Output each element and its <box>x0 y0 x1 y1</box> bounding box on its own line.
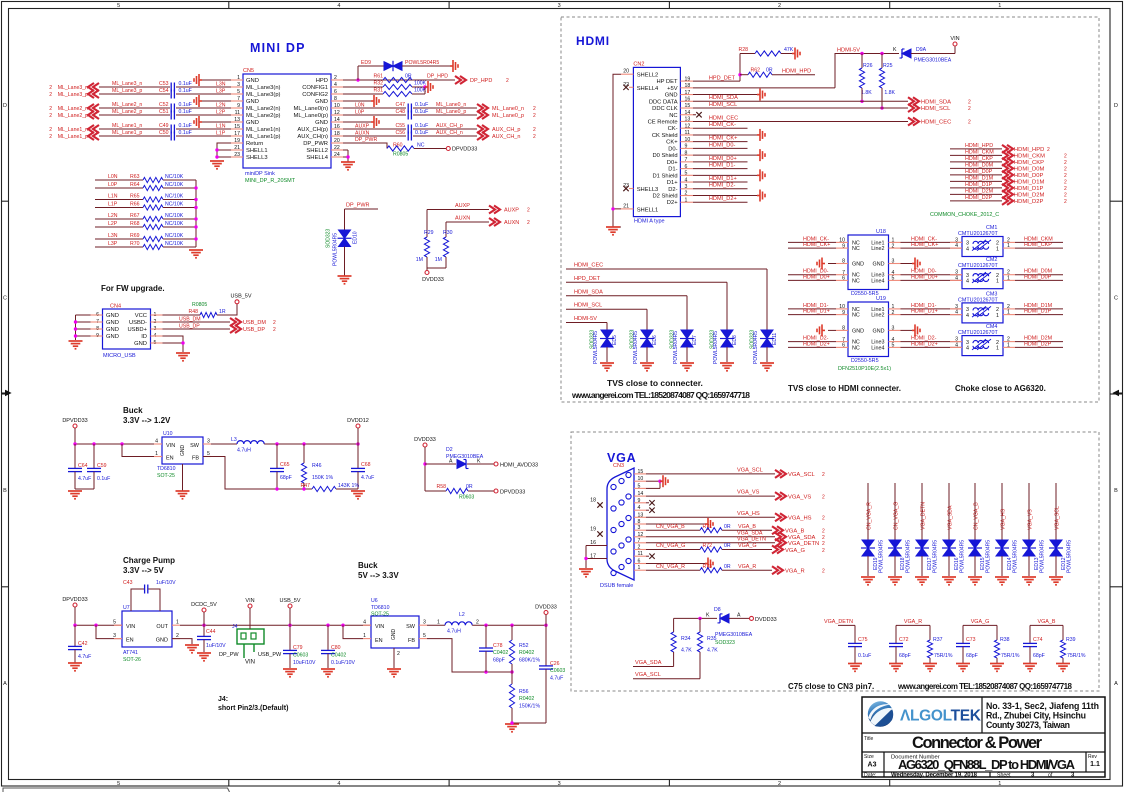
junction <box>288 624 291 627</box>
svg-text:0.1uF: 0.1uF <box>415 123 428 129</box>
svg-text:3.3V --> 1.2V: 3.3V --> 1.2V <box>123 416 171 425</box>
port VGA_SDA <box>775 533 786 541</box>
svg-text:ML_Lane2_n: ML_Lane2_n <box>58 106 88 112</box>
svg-text:5: 5 <box>117 781 120 787</box>
svg-text:VGA_DETN: VGA_DETN <box>737 537 766 543</box>
resistor R37 <box>929 625 931 640</box>
svg-text:R66: R66 <box>130 202 140 208</box>
svg-text:CN_VGA_B: CN_VGA_B <box>656 524 685 530</box>
svg-text:2: 2 <box>506 78 509 84</box>
svg-text:DDC CLK: DDC CLK <box>652 106 678 112</box>
wire <box>163 321 231 323</box>
svg-text:R32: R32 <box>373 81 383 87</box>
svg-text:VGA_VS: VGA_VS <box>1028 509 1034 530</box>
svg-text:A: A <box>1114 681 1118 687</box>
svg-text:DPVDD33: DPVDD33 <box>500 490 525 496</box>
wire <box>901 247 963 249</box>
svg-text:VIN: VIN <box>166 443 175 449</box>
wire <box>646 473 775 475</box>
ground <box>321 669 335 677</box>
svg-text:2: 2 <box>968 106 971 112</box>
power USB_5V <box>235 300 239 304</box>
ground <box>956 664 970 672</box>
svg-text:C48: C48 <box>395 109 405 115</box>
svg-text:R39: R39 <box>1066 637 1076 643</box>
svg-text:L1P: L1P <box>108 202 118 208</box>
svg-text:Buck: Buck <box>358 561 378 570</box>
svg-text:L3P: L3P <box>216 89 226 95</box>
svg-text:D2550-5R5: D2550-5R5 <box>851 358 879 364</box>
wire <box>1015 274 1063 276</box>
svg-text:HDMI_D1P: HDMI_D1P <box>1014 186 1043 192</box>
svg-text:68pF: 68pF <box>280 475 292 481</box>
svg-text:0.1uF: 0.1uF <box>858 653 871 659</box>
svg-text:VGA_R: VGA_R <box>904 619 922 625</box>
port HDMI_SCL <box>908 104 919 112</box>
regulator U6 <box>371 616 419 648</box>
svg-text:ML_Lane0_p: ML_Lane0_p <box>492 113 524 119</box>
junction <box>484 624 487 627</box>
junction <box>275 442 278 445</box>
junction <box>341 624 344 627</box>
svg-text:VGA_SCL: VGA_SCL <box>788 472 816 478</box>
ground <box>68 491 82 499</box>
svg-text:GND: GND <box>134 341 147 347</box>
svg-text:SHELL4: SHELL4 <box>306 155 328 161</box>
TVS diode ED14 <box>995 540 1009 556</box>
ground <box>912 258 920 270</box>
wire <box>1015 279 1063 281</box>
capacitor C74 <box>1029 625 1031 643</box>
svg-text:HDMI_D2M: HDMI_D2M <box>965 189 994 195</box>
wire <box>950 154 1002 156</box>
wire <box>176 107 231 109</box>
svg-text:Choke close to AG6320.: Choke close to AG6320. <box>955 384 1046 393</box>
svg-text:4: 4 <box>363 620 366 626</box>
ground <box>1022 577 1036 585</box>
ground <box>194 95 202 107</box>
svg-text:DP_PWR: DP_PWR <box>346 203 370 209</box>
svg-text:GND: GND <box>106 313 119 319</box>
svg-text:PMEG3010BEA: PMEG3010BEA <box>715 632 753 638</box>
wire <box>249 608 251 629</box>
wire <box>699 618 701 632</box>
svg-text:AUX_CH_n: AUX_CH_n <box>436 130 463 136</box>
svg-text:CONFIG2: CONFIG2 <box>302 92 328 98</box>
svg-text:3: 3 <box>558 781 561 787</box>
svg-text:ML_Lane2_p: ML_Lane2_p <box>58 113 88 119</box>
wire <box>357 444 359 468</box>
wire <box>693 94 757 96</box>
svg-text:POWL5R04R5: POWL5R04R5 <box>753 331 759 364</box>
wire <box>176 128 231 130</box>
svg-text:0.1uF: 0.1uF <box>415 109 428 115</box>
svg-text:D1+: D1+ <box>667 180 678 186</box>
svg-text:1: 1 <box>998 781 1001 787</box>
wire <box>393 648 395 668</box>
TVS diode ED18 <box>888 540 902 556</box>
svg-text:HDMI_HPD: HDMI_HPD <box>1014 147 1044 153</box>
wire <box>180 624 236 626</box>
wire <box>693 127 748 129</box>
wire <box>950 193 1002 195</box>
port AUX_CH_p <box>477 125 488 133</box>
svg-text:USB_PW: USB_PW <box>258 652 282 658</box>
wire <box>345 208 379 210</box>
junction <box>544 624 547 627</box>
wire <box>974 483 976 540</box>
wire <box>425 463 456 465</box>
svg-text:2: 2 <box>778 781 781 787</box>
svg-text:HP DET: HP DET <box>656 79 678 85</box>
wire <box>203 612 205 625</box>
svg-text:2: 2 <box>968 120 971 126</box>
svg-text:GND: GND <box>391 629 397 641</box>
svg-text:R62: R62 <box>750 68 760 74</box>
svg-text:C51: C51 <box>159 109 169 115</box>
svg-text:R0805: R0805 <box>393 152 408 158</box>
svg-text:HDMI_CKP: HDMI_CKP <box>1014 160 1044 166</box>
svg-text:GND: GND <box>106 334 119 340</box>
svg-text:2: 2 <box>273 327 276 333</box>
port VGA_R <box>772 566 783 574</box>
svg-text:2: 2 <box>822 541 825 547</box>
wire <box>646 523 705 525</box>
wire <box>788 274 836 276</box>
svg-text:HDMI_D1+: HDMI_D1+ <box>911 309 938 315</box>
wire <box>686 347 688 362</box>
svg-text:C0603: C0603 <box>293 653 308 659</box>
svg-text:R58: R58 <box>436 484 446 490</box>
wire <box>901 274 963 276</box>
svg-text:VGA_G: VGA_G <box>738 543 757 549</box>
wire <box>343 100 371 102</box>
svg-text:2: 2 <box>1047 147 1050 153</box>
wire <box>693 80 740 82</box>
svg-text:R46: R46 <box>312 463 322 469</box>
wire <box>176 135 231 137</box>
svg-text:GND: GND <box>106 320 119 326</box>
wire <box>99 128 170 130</box>
svg-text:C56: C56 <box>395 130 405 136</box>
wire <box>76 328 91 330</box>
wire <box>726 347 728 362</box>
port ML_Lane0_n <box>477 104 488 112</box>
port DP_HPD <box>455 76 466 84</box>
svg-text:75R/1%: 75R/1% <box>934 653 953 659</box>
wire <box>357 428 359 444</box>
svg-text:SOT-26: SOT-26 <box>123 657 141 663</box>
wire <box>896 624 930 626</box>
wire <box>950 148 1002 150</box>
svg-text:75R/1%: 75R/1% <box>1067 653 1086 659</box>
svg-text:D9A: D9A <box>916 47 927 53</box>
svg-text:C65: C65 <box>280 462 290 468</box>
wire <box>948 556 950 576</box>
ground <box>705 558 713 570</box>
ground <box>189 250 203 258</box>
wire <box>327 625 329 650</box>
ground <box>194 116 202 128</box>
svg-text:HDMI A type: HDMI A type <box>634 219 665 225</box>
svg-text:FB: FB <box>408 638 415 644</box>
wire <box>766 347 768 362</box>
svg-text:HDMI_D1+: HDMI_D1+ <box>803 309 830 315</box>
svg-text:VGA_B: VGA_B <box>785 529 804 535</box>
svg-text:C0402: C0402 <box>493 650 508 656</box>
ground <box>861 577 875 585</box>
junction <box>698 617 701 620</box>
wire <box>445 222 447 237</box>
svg-text:2: 2 <box>49 85 52 91</box>
next sheet edge <box>3 788 230 792</box>
TVS diode ED17 <box>915 540 929 556</box>
wire <box>413 135 477 137</box>
junction <box>880 52 883 55</box>
junction <box>94 624 97 627</box>
svg-text:L3N: L3N <box>216 82 226 88</box>
svg-text:HPD_DET: HPD_DET <box>709 75 736 81</box>
wire <box>950 167 1002 169</box>
svg-text:L1N: L1N <box>216 124 226 130</box>
svg-text:R70: R70 <box>130 241 140 247</box>
svg-text:B: B <box>3 488 7 494</box>
svg-text:ML_Lane2_n: ML_Lane2_n <box>112 102 142 108</box>
port VGA_VS <box>775 492 786 500</box>
wire <box>646 480 660 482</box>
power DPVDD33 <box>446 147 450 151</box>
svg-text:NC: NC <box>852 313 860 319</box>
wire <box>646 563 705 565</box>
svg-text:D0-: D0- <box>668 146 677 152</box>
wire <box>740 74 748 76</box>
svg-text:L3P: L3P <box>108 241 118 247</box>
junction <box>880 106 883 109</box>
svg-text:HDMI_HPD: HDMI_HPD <box>782 68 811 74</box>
svg-text:D1 Shield: D1 Shield <box>652 173 677 179</box>
port HDMI_CKM <box>1002 151 1013 159</box>
svg-text:1: 1 <box>996 279 999 285</box>
svg-text:143K 1%: 143K 1% <box>338 483 359 489</box>
wire <box>854 625 856 643</box>
wire <box>176 93 231 95</box>
port HDMI_D0P <box>1002 171 1013 179</box>
svg-text:VGA_SCL: VGA_SCL <box>737 467 763 473</box>
svg-text:2: 2 <box>1064 160 1067 166</box>
wire <box>163 336 184 352</box>
svg-text:B: B <box>1114 488 1118 494</box>
power VIN <box>954 46 956 54</box>
svg-text:ML_Lane3(p): ML_Lane3(p) <box>246 92 281 98</box>
svg-text:0.1uF: 0.1uF <box>179 88 192 94</box>
wire <box>163 226 196 228</box>
svg-text:Line4: Line4 <box>871 345 884 351</box>
wire <box>545 615 547 626</box>
svg-text:Rev: Rev <box>1088 754 1097 760</box>
svg-text:HDMI_SCL: HDMI_SCL <box>921 106 951 112</box>
svg-text:ΛLGOLTEK: ΛLGOLTEK <box>900 708 982 725</box>
junction <box>74 327 77 330</box>
svg-text:ED6: ED6 <box>652 335 658 345</box>
svg-text:NC/10K: NC/10K <box>165 202 184 208</box>
svg-text:2: 2 <box>49 92 52 98</box>
svg-text:R69: R69 <box>130 233 140 239</box>
svg-text:D2 Shield: D2 Shield <box>652 194 677 200</box>
svg-text:U7: U7 <box>123 605 130 611</box>
svg-text:HDMI_SCL: HDMI_SCL <box>574 303 602 309</box>
svg-text:AUX_CH(p): AUX_CH(p) <box>297 127 328 133</box>
svg-text:POWL5R04R5: POWL5R04R5 <box>1067 540 1073 573</box>
svg-text:POWL5R04R5: POWL5R04R5 <box>933 540 939 573</box>
svg-text:VGA_HS: VGA_HS <box>1001 508 1007 530</box>
svg-text:short Pin2/3.(Default): short Pin2/3.(Default) <box>218 705 288 712</box>
svg-text:GND: GND <box>156 638 168 644</box>
wire <box>93 444 95 468</box>
wire <box>911 53 955 55</box>
wire <box>163 187 196 189</box>
svg-text:HDMI_D1-: HDMI_D1- <box>709 162 736 168</box>
svg-text:4.7K: 4.7K <box>681 648 692 654</box>
svg-text:USB_5V: USB_5V <box>279 598 300 604</box>
svg-text:NC: NC <box>852 246 860 252</box>
svg-text:HDMI_D2+: HDMI_D2+ <box>803 341 830 347</box>
svg-text:C0603: C0603 <box>550 668 565 674</box>
TVS diode ED5 <box>600 330 614 347</box>
wire <box>828 329 836 331</box>
capacitor C73 <box>962 625 964 643</box>
wire <box>948 483 950 540</box>
svg-text:2: 2 <box>1064 199 1067 205</box>
wire <box>467 463 494 465</box>
svg-text:R48: R48 <box>188 309 198 315</box>
svg-text:ML_Lane2(n): ML_Lane2(n) <box>246 106 281 112</box>
ground <box>387 669 401 677</box>
wire <box>343 135 406 137</box>
wire <box>1015 346 1063 348</box>
junction <box>181 341 184 344</box>
svg-text:2: 2 <box>822 529 825 535</box>
power HDMI_AVDD33 <box>494 462 498 466</box>
svg-text:AUX_CH_p: AUX_CH_p <box>436 123 463 129</box>
svg-text:ID: ID <box>141 334 147 340</box>
svg-text:D8: D8 <box>714 607 721 613</box>
junction <box>346 155 349 158</box>
svg-text:GND: GND <box>873 262 885 268</box>
wire <box>881 88 883 108</box>
wire <box>327 654 329 668</box>
ground <box>505 724 519 732</box>
port VGA_DETN <box>775 539 786 547</box>
svg-text:1: 1 <box>996 313 999 319</box>
junction <box>215 155 218 158</box>
wire <box>336 488 358 490</box>
charge pump U7 <box>122 611 172 647</box>
ground <box>425 81 433 93</box>
ground <box>197 653 211 661</box>
wire <box>726 282 728 330</box>
svg-text:www.angerei.com TEL:1852087408: www.angerei.com TEL:18520874087 QQ:16597… <box>897 682 1073 691</box>
svg-text:TD6810: TD6810 <box>157 466 176 472</box>
connector CN4 <box>103 309 151 349</box>
svg-text:PMEG3010BEA: PMEG3010BEA <box>914 58 952 64</box>
wire <box>74 650 76 663</box>
title block <box>862 697 1105 777</box>
svg-text:R64: R64 <box>130 182 140 188</box>
svg-text:2: 2 <box>822 569 825 575</box>
ground <box>338 276 352 284</box>
svg-text:VGA_HS: VGA_HS <box>788 516 812 522</box>
wire <box>739 54 741 82</box>
svg-text:4: 4 <box>966 279 969 285</box>
svg-text:1: 1 <box>996 346 999 352</box>
junction <box>194 198 197 201</box>
svg-text:47K: 47K <box>784 47 794 53</box>
wire <box>894 483 896 540</box>
wire <box>76 314 91 316</box>
svg-text:ED10: ED10 <box>353 231 359 244</box>
svg-text:AUXN: AUXN <box>504 220 519 226</box>
svg-text:ML_Lane0_p: ML_Lane0_p <box>436 109 466 115</box>
svg-text:68pF: 68pF <box>966 653 978 659</box>
svg-text:ML_Lane0_n: ML_Lane0_n <box>492 106 524 112</box>
wire <box>566 322 607 324</box>
HDMI section box <box>561 17 1099 402</box>
wire <box>729 617 749 619</box>
svg-text:2: 2 <box>533 106 536 112</box>
svg-text:AT741: AT741 <box>123 650 138 656</box>
wire <box>303 444 305 463</box>
svg-text:R63: R63 <box>130 174 140 180</box>
no-connect <box>623 85 628 90</box>
svg-text:CONFIG1: CONFIG1 <box>302 85 328 91</box>
junction <box>202 624 205 627</box>
wire <box>195 180 197 247</box>
junction <box>423 462 426 465</box>
svg-text:HDMI-5V: HDMI-5V <box>837 48 860 54</box>
svg-text:R0402: R0402 <box>519 650 534 656</box>
wire <box>693 120 908 122</box>
wire <box>901 279 963 281</box>
ground <box>720 363 734 371</box>
svg-text:SHELL2: SHELL2 <box>637 73 659 79</box>
svg-text:ML_Lane0(n): ML_Lane0(n) <box>294 106 329 112</box>
svg-text:Size: Size <box>864 754 874 760</box>
svg-text:CN4: CN4 <box>110 304 121 310</box>
ground <box>176 353 190 361</box>
svg-text:5V --> 3.3V: 5V --> 3.3V <box>358 571 399 580</box>
svg-text:EN: EN <box>166 456 174 462</box>
svg-text:HDMI_CK+: HDMI_CK+ <box>709 136 737 142</box>
svg-text:C59: C59 <box>97 463 107 469</box>
svg-text:miniDP Sink: miniDP Sink <box>245 171 275 177</box>
svg-text:2: 2 <box>1064 154 1067 160</box>
svg-text:L1N: L1N <box>108 194 118 200</box>
svg-text:HDMI_CK-: HDMI_CK- <box>709 122 736 128</box>
wire <box>426 268 428 271</box>
junction <box>194 225 197 228</box>
port VGA_B <box>772 526 783 534</box>
svg-text:L3N: L3N <box>108 233 118 239</box>
port HDMI_HPD <box>1002 145 1013 153</box>
svg-text:HDMI_D0+: HDMI_D0+ <box>803 274 830 280</box>
svg-text:Line2: Line2 <box>871 246 884 252</box>
svg-text:150K/1%: 150K/1% <box>519 704 540 710</box>
svg-text:D: D <box>3 103 7 109</box>
svg-text:C73: C73 <box>966 637 976 643</box>
svg-text:U18: U18 <box>876 229 886 235</box>
svg-text:3.3V --> 5V: 3.3V --> 5V <box>123 566 164 575</box>
svg-text:R65: R65 <box>130 194 140 200</box>
